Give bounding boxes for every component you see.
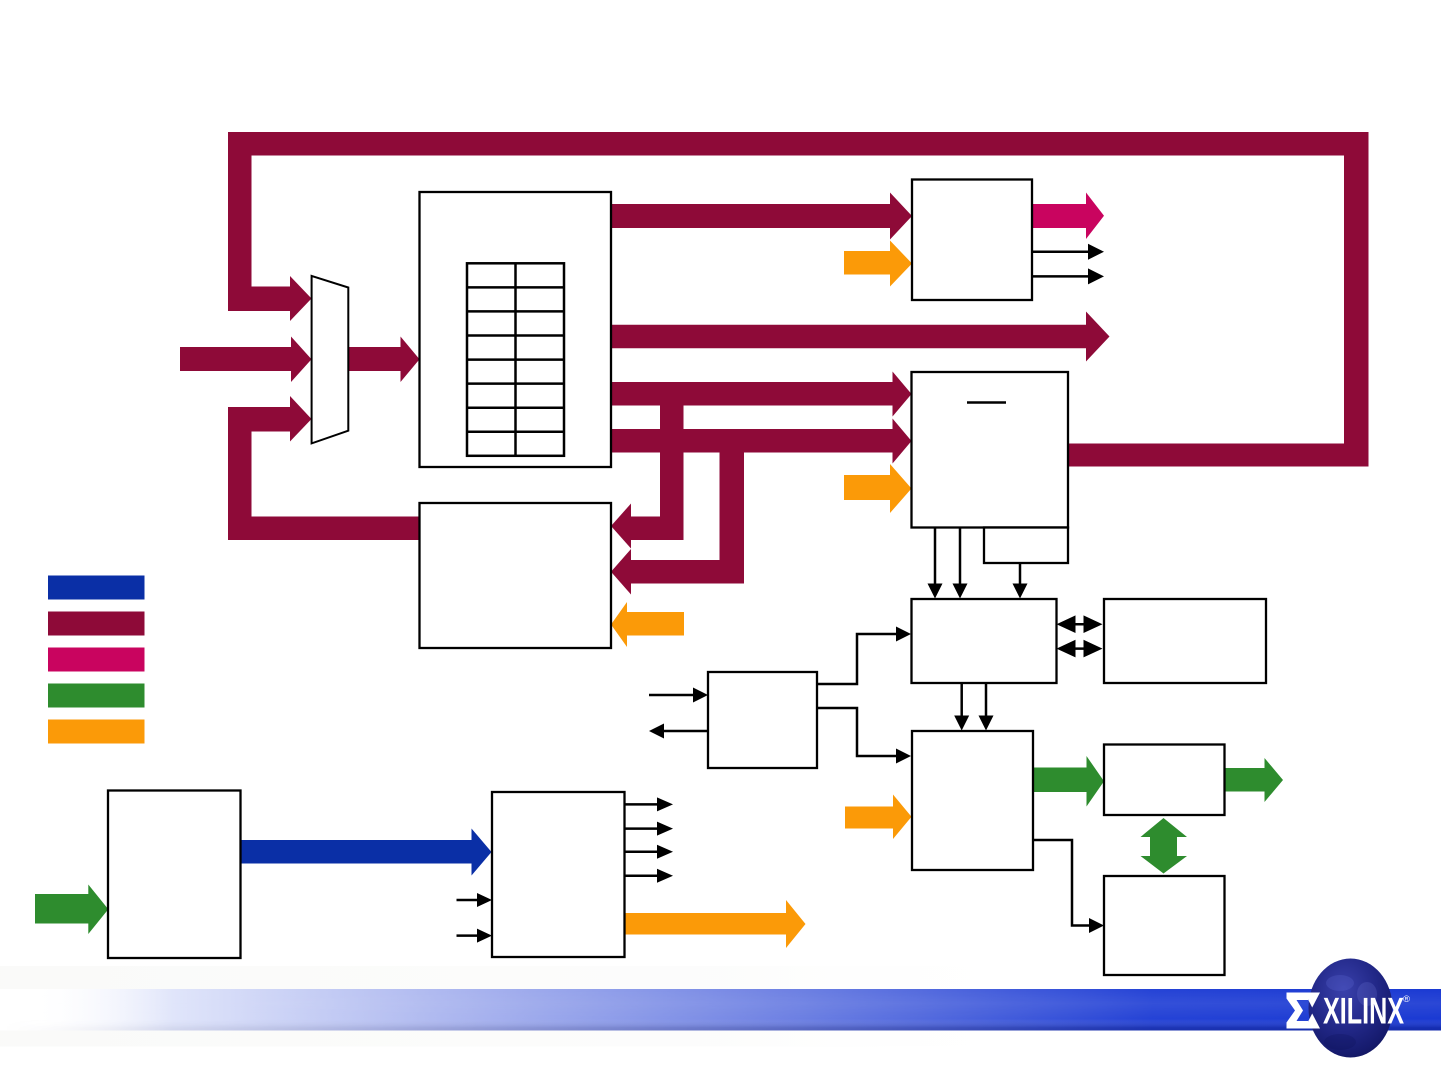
- svg-text:XILINX: XILINX: [1323, 991, 1404, 1032]
- svg-text:®: ®: [1403, 994, 1410, 1005]
